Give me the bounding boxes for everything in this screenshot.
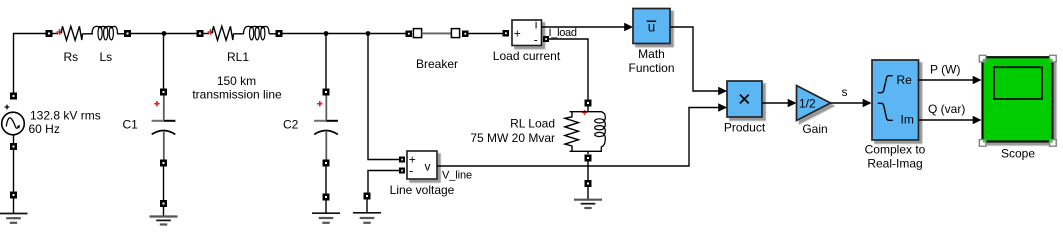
series RLC branch Rs Ls : left port — [46, 30, 53, 37]
arrowhead into Gain — [788, 99, 797, 108]
wire: port to Rs — [53, 33, 59, 35]
wire: C2 drop from bus — [325, 34, 327, 89]
wire: Gain output to Complex to Real-Imag — [831, 102, 871, 104]
Scope selection handle top-right — [1050, 55, 1057, 62]
svg-text:i: i — [535, 18, 538, 32]
svg-text:P (W): P (W) — [930, 63, 960, 77]
inductor RL1 — [244, 26, 270, 40]
parallel RLC branch: RL Load top port — [585, 100, 592, 107]
arrowhead into Product input 2 — [718, 103, 727, 112]
svg-text:150 km: 150 km — [217, 74, 256, 88]
ground G1 under source — [0, 192, 28, 223]
svg-text:Ls: Ls — [100, 50, 113, 64]
Load current minus output port — [543, 36, 549, 42]
Scope selection handle bottom-right — [1050, 140, 1057, 147]
RL Load bottom port — [585, 155, 592, 162]
svg-text:132.8 kV rms: 132.8 kV rms — [30, 109, 101, 123]
wire: bus between RL1 branch and Breaker — [283, 33, 407, 35]
resistor RL1 — [212, 26, 234, 40]
capacitor C1 bottom port — [160, 160, 167, 167]
svg-text:RL Load: RL Load — [510, 117, 555, 131]
svg-text:I_load: I_load — [549, 27, 577, 39]
wire: source bottom lead — [13, 135, 15, 143]
Product block — [727, 81, 762, 117]
svg-text:Im: Im — [901, 113, 914, 127]
series RLC branch Rs Ls : right port — [124, 30, 131, 37]
RL Load parallel R and L — [565, 107, 605, 155]
svg-text:Complex to: Complex to — [865, 143, 926, 157]
wire: C1 drop from bus — [163, 34, 165, 89]
breaker left port — [406, 31, 413, 38]
capacitor C2 bottom port — [323, 160, 330, 167]
Scope block — [983, 57, 1053, 141]
svg-text:Load current: Load current — [493, 49, 561, 63]
wire: port to RL1 resistor — [204, 33, 210, 35]
AC voltage source polarity plus — [5, 105, 10, 110]
Load current plus input port — [503, 30, 510, 37]
svg-text:60 Hz: 60 Hz — [29, 122, 60, 136]
arrowhead into Math Function — [624, 23, 633, 32]
svg-text:Breaker: Breaker — [416, 57, 458, 71]
ground G4 under Line voltage minus — [353, 193, 381, 223]
breaker contact square 2 — [451, 29, 459, 38]
node: junction to Line voltage — [366, 31, 371, 36]
wire: C1 to ground — [163, 167, 165, 201]
AC voltage source port top — [10, 93, 17, 100]
Scope selection handle top-left — [979, 55, 986, 62]
svg-text:V_line: V_line — [442, 170, 472, 182]
wire: Breaker to Load current — [468, 33, 503, 35]
polarity plus C2 — [317, 101, 322, 106]
wire: Math Function output to Product input 1 — [670, 27, 726, 91]
ground G2 under C1 — [150, 200, 178, 225]
wire: Line voltage minus to ground — [368, 171, 399, 193]
svg-text:s: s — [842, 85, 848, 99]
arrowhead into Complex to Real-Imag — [863, 99, 872, 108]
svg-text:transmission line: transmission line — [192, 88, 282, 102]
node: junction to C2 — [324, 31, 329, 36]
voltage measurement block: Line voltage — [407, 151, 437, 179]
wire: Rs to Ls — [83, 33, 94, 35]
breaker right port — [462, 31, 469, 38]
Line voltage plus input port — [399, 157, 405, 163]
svg-text:Scope: Scope — [1001, 147, 1035, 161]
capacitor C1 — [152, 96, 176, 160]
wire: main top bus from source corner to Rs port — [14, 34, 47, 100]
wire: RL1 L to right port — [269, 33, 276, 35]
wire: bus junction down to Line voltage plus — [368, 34, 399, 160]
svg-text:Math: Math — [638, 47, 665, 61]
svg-text:RL1: RL1 — [227, 50, 249, 64]
wire: RL Load to ground — [587, 162, 589, 181]
Math Function block — [633, 9, 670, 44]
Line voltage minus input port — [399, 168, 405, 174]
svg-text:Re: Re — [897, 73, 913, 87]
capacitor C2 top port — [323, 89, 330, 96]
inductor in RL Load — [595, 112, 606, 152]
ground G5 under RL Load — [574, 180, 602, 208]
arrowhead into Scope input 2 — [973, 116, 982, 125]
wire: source to ground — [13, 150, 15, 192]
resistor Rs — [61, 26, 83, 40]
svg-text:Rs: Rs — [64, 50, 79, 64]
wire: Product output to Gain — [762, 102, 795, 104]
polarity plus Rs branch — [57, 29, 63, 35]
current measurement block: Load current — [512, 18, 542, 47]
Complex to Real-Imag block — [872, 60, 919, 140]
svg-text:Gain: Gain — [802, 122, 827, 136]
wire: V_line signal to Product input 2 — [437, 108, 726, 167]
arrowhead into Scope input 1 — [973, 76, 982, 85]
svg-text:-: - — [409, 164, 413, 178]
capacitor C1 top port — [160, 89, 167, 96]
resistor in RL Load — [565, 112, 579, 152]
svg-text:Function: Function — [628, 61, 674, 75]
breaker gray link — [422, 32, 452, 34]
wire: Re output P to Scope — [919, 79, 981, 81]
breaker contact square 1 — [413, 29, 421, 38]
wire: Im output Q to Scope — [919, 119, 981, 121]
ground G3 under C2 — [312, 194, 340, 223]
svg-text:Product: Product — [724, 121, 766, 135]
wire: RL1 R to L — [234, 33, 245, 35]
polarity plus C1 — [154, 101, 159, 106]
svg-text:v: v — [425, 160, 431, 174]
arrowhead into Product input 1 — [718, 87, 727, 96]
series RLC branch RL1 : left port — [197, 30, 204, 37]
Scope selection handle bottom-left — [979, 140, 986, 147]
wire: i signal to Math Function — [542, 26, 631, 28]
svg-text:C2: C2 — [283, 118, 299, 132]
polarity plus RL Load — [582, 110, 587, 115]
svg-text:C1: C1 — [123, 118, 139, 132]
wire: C2 to ground — [325, 167, 327, 194]
wire: Ls to right port — [117, 33, 124, 35]
svg-text:-: - — [534, 33, 538, 47]
svg-text:Line voltage: Line voltage — [390, 183, 455, 197]
inductor Ls — [92, 26, 118, 40]
svg-text:Real-Imag: Real-Imag — [867, 157, 922, 171]
svg-text:+: + — [514, 27, 521, 41]
wire: minus terminal to RL Load — [549, 39, 588, 100]
AC voltage source circle with sine — [2, 112, 25, 135]
capacitor C2 — [314, 96, 338, 160]
Gain block triangle 1/2 — [797, 86, 831, 121]
wire: bus between Rs-Ls branch and RL1 branch — [131, 33, 197, 35]
AC voltage source port bottom — [10, 143, 17, 150]
svg-text:75 MW 20 Mvar: 75 MW 20 Mvar — [470, 131, 555, 145]
node: junction to C1 — [162, 31, 167, 36]
svg-text:1/2: 1/2 — [799, 97, 816, 111]
svg-text:Q (var): Q (var) — [928, 102, 965, 116]
series RLC branch RL1 : right port — [276, 30, 283, 37]
polarity plus RL1 — [208, 29, 214, 35]
